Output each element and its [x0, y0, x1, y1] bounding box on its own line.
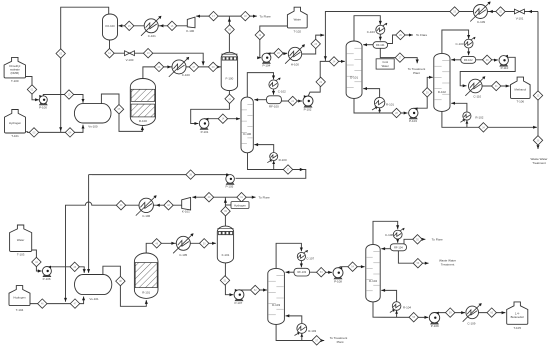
svg-text:T-100: T-100	[11, 79, 19, 83]
svg-text:Hydrogen: Hydrogen	[234, 203, 246, 207]
stream diamond Sk101b	[237, 193, 246, 202]
svg-text:Hydrogen: Hydrogen	[9, 121, 22, 125]
wire: P-102 discharge to D-101 feed junction	[308, 61, 325, 96]
wire: recycle gas to K-100	[196, 15, 229, 18]
reflux drum RF-101	[373, 42, 388, 49]
horizontal vessel Vs-100	[74, 104, 111, 129]
wire: D-100 bottoms to P-105	[236, 153, 306, 179]
stream diamond Sd101b	[392, 108, 401, 117]
stream diamond Streat101	[395, 53, 404, 62]
svg-text:P-107: P-107	[234, 301, 242, 305]
storage tank T-106	[511, 77, 531, 103]
wire: P-104 discharge to H-100	[266, 52, 287, 55]
svg-text:Plant: Plant	[337, 340, 344, 344]
svg-text:P-100: P-100	[39, 106, 47, 110]
svg-text:R-100: R-100	[139, 119, 147, 123]
wire: Vs-100 overhead to R-100	[101, 94, 144, 131]
wire: R-101 outlet to F-101 feed	[146, 242, 216, 253]
wire: C-109 to product tank T-105	[479, 311, 506, 314]
column D-100	[241, 97, 253, 153]
wire: purge to flare (train 2)	[225, 196, 255, 199]
wire: P-107 discharge to D-103 feed	[239, 288, 267, 291]
wire: purge to flare	[229, 15, 256, 18]
svg-text:RF-101: RF-101	[376, 43, 385, 47]
stream diamond Sd102f	[423, 88, 432, 97]
svg-text:R-102: R-102	[475, 116, 483, 120]
wire: RF-101 bottoms to treatment	[380, 48, 419, 63]
stream diamond Sww104	[413, 259, 422, 268]
wire: C-107 to RF-103	[300, 261, 303, 268]
stream diamond S5	[114, 105, 123, 114]
heat exchanger C-106	[136, 195, 157, 218]
reboiler R-101 (D-101 reboiler)	[372, 97, 394, 111]
wire: R-104 reboiler riser	[396, 310, 398, 317]
heat exchanger C-109 (2)	[463, 303, 482, 326]
flash drum F-100	[221, 52, 237, 90]
stream diamond Svs101	[70, 299, 79, 308]
wire: R-102 vapor return to D-102	[451, 102, 467, 112]
column D-101	[346, 41, 362, 98]
stream diamond Svert1	[533, 91, 542, 100]
hydrogen makeup stream box	[231, 202, 249, 209]
svg-text:C-100: C-100	[182, 73, 190, 77]
pump P-102	[303, 95, 313, 111]
svg-text:Methanol: Methanol	[515, 88, 527, 92]
wire: D-102 bottoms to recycle junction	[442, 111, 537, 128]
stream diamond Srf0	[288, 96, 297, 105]
svg-text:C-109: C-109	[477, 20, 485, 24]
wire: RF-102 distillate to P-110	[476, 59, 498, 62]
stream diamond Sh100b	[311, 39, 320, 48]
wire: recycle gas to K-101	[192, 196, 225, 199]
wire: RF-101 reflux to D-101	[363, 43, 373, 46]
reactor R-101	[134, 253, 158, 298]
svg-text:Water: Water	[17, 238, 24, 242]
stream diamond Sd100b	[283, 165, 292, 174]
wire: D-101 overhead to C-103	[354, 16, 382, 41]
wire: F-100 bottoms to P-101	[191, 91, 230, 125]
wire: RF-103 distillate to P-108	[310, 271, 333, 274]
stream diamond Sc106b	[116, 201, 125, 210]
stream diamond Svert2	[533, 136, 542, 145]
wire: RF-100 distillate to P-102	[281, 100, 302, 103]
wire: T-104 hydrogen feed line	[30, 297, 85, 304]
valve V-101	[514, 9, 524, 21]
reboiler R-102 (D-102 reboiler)	[460, 112, 483, 124]
svg-text:(DMM): (DMM)	[11, 71, 20, 75]
cooler C-104	[455, 37, 475, 48]
svg-text:D-103: D-103	[272, 303, 280, 307]
wire: KO-100 overhead recycle to hydrogen line	[59, 7, 108, 132]
svg-text:Butanediol: Butanediol	[511, 315, 525, 319]
svg-text:C-110: C-110	[473, 94, 481, 98]
wire: RF-104 reflux to D-104	[381, 247, 390, 250]
wire: T-103 water to P-106	[32, 250, 42, 273]
svg-text:V-101: V-101	[516, 17, 524, 21]
pump P-110	[499, 55, 509, 70]
svg-text:P-105: P-105	[225, 185, 233, 189]
svg-text:C-106: C-106	[142, 214, 150, 218]
wire: recycle header from V-101	[324, 10, 538, 62]
storage tank T-105	[507, 302, 528, 330]
reflux drum RF-104	[390, 244, 406, 251]
wire: R-103 vapor return to D-103	[286, 314, 302, 323]
wire: R-101 reboiler riser	[379, 108, 381, 113]
svg-text:C-102: C-102	[278, 89, 286, 93]
stream diamond Svs101o	[116, 276, 125, 285]
storage tank T-101	[5, 110, 26, 139]
stream diamond Sflare104	[413, 235, 422, 244]
stream diamond Sd101	[329, 57, 338, 66]
pump P-106	[42, 266, 51, 281]
stream diamond Sc2	[167, 21, 176, 30]
pump P-101	[199, 118, 209, 134]
wire: RF-101 vapor to flare	[388, 34, 413, 44]
heat exchanger H-100	[285, 44, 305, 66]
svg-text:P-102: P-102	[304, 107, 312, 111]
heat exchanger C-110	[465, 76, 485, 98]
stream diamond Sc106a	[164, 201, 173, 210]
stream diamond S4	[65, 128, 74, 137]
wire: C-110 to methanol tank T-106	[482, 85, 509, 88]
wire: D-101 bottoms to P-103	[354, 98, 408, 114]
svg-text:Water: Water	[294, 18, 301, 22]
heat exchanger C-101	[141, 16, 161, 38]
wire: D-104 bottoms to P-109	[373, 302, 428, 319]
reflux drum RF-100	[267, 96, 282, 109]
reboiler R-104 (D-104 reboiler)	[390, 302, 411, 314]
wire: R-104 vapor return to D-104	[381, 289, 396, 302]
wire: right edge recycle riser	[537, 12, 540, 150]
svg-text:Hydrogen: Hydrogen	[13, 296, 26, 300]
flash drum F-101	[217, 226, 233, 263]
wire: P-101 discharge to D-100 feed	[204, 117, 240, 120]
stream diamond S18	[241, 11, 250, 20]
pump P-100	[39, 95, 47, 110]
wire: C-104 to RF-102	[467, 48, 470, 55]
wire: D-100 overhead to C-102	[247, 73, 275, 98]
horizontal vessel Vs-101	[75, 275, 112, 301]
stream diamond S14	[218, 114, 227, 123]
cooler C-108	[385, 228, 404, 239]
stream diamond St102	[255, 30, 264, 39]
svg-text:C-108: C-108	[385, 233, 393, 237]
wire: P-105 product to Vs-101 (with crossover hop)	[87, 173, 230, 273]
svg-text:P-106: P-106	[43, 277, 51, 281]
stream diamond S10	[64, 90, 73, 99]
wire: P-109 discharge to C-109	[435, 311, 466, 314]
stream diamond Sc109b	[487, 308, 496, 317]
compressor K-100	[186, 17, 195, 33]
stream diamond Sp105	[186, 170, 195, 179]
wire: R-103 reboiler riser	[301, 334, 303, 341]
svg-text:D-101: D-101	[350, 76, 358, 80]
stream diamond S17	[209, 11, 218, 20]
svg-text:T-103: T-103	[17, 253, 25, 257]
stream diamond S11	[225, 94, 234, 103]
compressor K-101	[182, 197, 191, 213]
pump P-107	[234, 289, 244, 305]
svg-text:C-107: C-107	[306, 256, 314, 260]
stream diamond Sr101a	[152, 239, 161, 248]
wire: T-101 hydrogen feed line	[25, 125, 84, 133]
svg-text:C-101: C-101	[148, 34, 156, 38]
stream diamond Sk101a	[204, 193, 213, 202]
svg-text:P-101: P-101	[201, 130, 209, 134]
heat exchanger C-100	[169, 57, 190, 77]
svg-text:R-100: R-100	[279, 158, 287, 162]
wire: C-108 to RF-104	[396, 239, 399, 243]
wire: H-100 outlet to D-101 feed line	[302, 34, 325, 54]
svg-text:R-103: R-103	[308, 329, 316, 333]
svg-text:T-106: T-106	[517, 99, 525, 103]
stream diamond Sd102b	[479, 123, 488, 132]
wire: RF-103 reflux to D-103	[286, 271, 295, 274]
wire: T-100 outlet to P-100	[26, 77, 39, 102]
wire: RF-102 reflux to D-102	[451, 58, 461, 61]
pump P-105	[225, 174, 234, 189]
wire: F-101 bottoms to P-107	[225, 263, 233, 296]
wire: hydrogen makeup box connector	[225, 204, 231, 206]
svg-text:T-102: T-102	[294, 29, 302, 33]
stream diamond S6	[154, 62, 163, 71]
svg-text:R-104: R-104	[403, 305, 411, 309]
stream diamond Sc110	[492, 81, 501, 90]
pump P-109	[429, 312, 439, 329]
valve V-100	[125, 51, 135, 62]
svg-text:P-110: P-110	[501, 66, 509, 70]
wire: RF-100 reflux to D-100	[254, 98, 266, 101]
stream diamond Srf103	[317, 268, 326, 277]
stream diamond Sv1	[105, 49, 114, 58]
svg-text:Vs-100: Vs-100	[88, 124, 98, 128]
svg-text:H-100: H-100	[291, 63, 299, 67]
wire: K-101 discharge through C-106 and recycle downcomer (hop over product line)	[64, 202, 182, 302]
svg-text:RF-103: RF-103	[297, 270, 306, 274]
svg-text:Vs-101: Vs-101	[89, 297, 99, 301]
wire: T-102 water to P-104	[257, 26, 287, 59]
svg-text:T-104: T-104	[16, 308, 24, 312]
storage tank T-100	[4, 57, 25, 83]
stream diamond Shdr2	[496, 7, 505, 16]
reflux drum RF-102	[461, 56, 476, 63]
cooler C-102	[269, 78, 286, 94]
stream diamond Sh100	[274, 49, 283, 58]
wire: C-103 to RF-101	[379, 35, 382, 41]
wire: P-106 discharge to Vs-101 top	[47, 267, 86, 273]
pump P-104	[262, 52, 271, 67]
reboiler R-100 (D-100 reboiler)	[267, 153, 287, 165]
wire: F-101 overhead riser	[224, 197, 227, 226]
wire: P-103 discharge to D-102 feed	[413, 76, 433, 109]
wire: R-100 reboiler riser (D-100)	[273, 160, 275, 169]
stream diamond Sc1	[125, 21, 134, 30]
svg-text:RF-102: RF-102	[464, 58, 473, 62]
svg-text:K-101: K-101	[182, 210, 190, 214]
svg-text:C-105: C-105	[179, 253, 187, 257]
wire: KO-100 bottoms V-100 bypass	[110, 40, 205, 65]
svg-text:RF-100: RF-100	[269, 105, 279, 109]
svg-text:K-100: K-100	[186, 29, 194, 33]
stream diamond Sp102	[316, 77, 325, 86]
stream diamond S9	[208, 62, 217, 71]
svg-text:To Flare: To Flare	[260, 14, 271, 18]
svg-text:C-103: C-103	[367, 30, 375, 34]
stream diamond Sv2	[143, 49, 152, 58]
column D-104	[366, 244, 380, 302]
stream diamond Sp109	[446, 308, 455, 317]
wire: F-100 overhead riser	[228, 16, 231, 52]
stream diamond St104	[38, 299, 47, 308]
wire: K-100 discharge through C-101 to KO-100	[119, 24, 188, 27]
stream diamond Sf101t	[221, 207, 230, 216]
stream diamond S1	[27, 85, 36, 94]
svg-text:F-100: F-100	[226, 77, 234, 81]
svg-text:Plant: Plant	[413, 71, 420, 75]
heat exchanger C-105	[173, 233, 193, 256]
stream diamond S2	[56, 49, 65, 58]
wire: Vs-101 overhead to R-101	[103, 266, 148, 306]
svg-text:KO-100: KO-100	[105, 24, 115, 28]
stream diamond Sd104b	[409, 313, 418, 322]
storage tank T-103	[10, 225, 32, 257]
svg-text:T-105: T-105	[513, 326, 521, 330]
svg-text:To Flare: To Flare	[259, 195, 270, 199]
stream diamond S8	[225, 25, 234, 34]
svg-text:Cool: Cool	[382, 60, 388, 64]
storage tank T-102	[287, 7, 307, 33]
svg-text:To Flare: To Flare	[416, 33, 427, 37]
heat exchanger C-109	[470, 2, 490, 25]
wire: D-103 overhead to C-107	[276, 243, 303, 268]
wire: RF-104 distillate to waste water	[398, 251, 428, 265]
wire: C-102 outlet to RF-100	[272, 90, 275, 95]
wire: D-103 bottoms to treatment	[276, 324, 324, 342]
storage tank T-104	[9, 286, 30, 312]
reflux drum RF-103	[294, 268, 310, 276]
wire: P-108 discharge to D-104 feed	[338, 265, 365, 268]
wire: P-100 discharge to Vs-100 top	[43, 95, 84, 103]
wire: P-110 discharge to C-110	[460, 57, 515, 87]
knock-out drum KO-100	[103, 14, 118, 40]
wire: R-100 outlet to F-100 feed	[143, 65, 221, 78]
pump P-103	[409, 107, 418, 123]
wire: D-102 overhead to C-104	[442, 30, 470, 53]
wire: D-104 overhead to C-108	[373, 221, 399, 244]
svg-text:C-104: C-104	[455, 42, 463, 46]
wire: RF-104 vapor to flare	[404, 238, 425, 244]
svg-text:P-109: P-109	[431, 324, 439, 328]
stream diamond Sf101b	[220, 276, 229, 285]
svg-text:P-104: P-104	[262, 64, 270, 68]
svg-text:Treatment: Treatment	[441, 263, 455, 267]
stream diamond S7	[189, 62, 198, 71]
wire: D-101 feed	[325, 60, 344, 63]
stream diamond Sp107	[251, 285, 260, 294]
wire: R-102 reboiler riser	[466, 120, 468, 127]
cooler C-107	[297, 250, 314, 260]
svg-text:C-109: C-109	[467, 322, 475, 326]
stream diamond Shdr1	[450, 7, 459, 16]
stream diamond Sp108	[348, 262, 357, 271]
cooler C-103	[367, 23, 387, 34]
svg-text:T-101: T-101	[11, 134, 19, 138]
svg-text:D-102: D-102	[438, 90, 446, 94]
svg-text:V-100: V-100	[126, 58, 134, 62]
stream diamond S3	[29, 128, 38, 137]
stream diamond Srf102	[482, 55, 491, 64]
svg-text:D-104: D-104	[369, 279, 377, 283]
wire: R-101 vapor return to D-101	[363, 87, 379, 97]
svg-text:P-108: P-108	[334, 280, 342, 284]
svg-text:P-103: P-103	[409, 119, 417, 123]
stream diamond Sflare101	[396, 30, 405, 39]
svg-text:Treatment: Treatment	[532, 161, 546, 165]
reactor R-100	[130, 79, 155, 126]
stream diamond Sd103b	[312, 336, 321, 345]
wire: R-100 vapor return to D-100	[254, 143, 273, 153]
svg-text:F-101: F-101	[222, 253, 230, 257]
cool water utility box	[376, 59, 394, 69]
pump P-108	[333, 267, 343, 284]
svg-text:D-100: D-100	[243, 132, 251, 136]
stream diamond Sr101b	[200, 239, 209, 248]
svg-text:RF-104: RF-104	[394, 245, 403, 249]
svg-text:To Flare: To Flare	[432, 238, 443, 242]
svg-text:R-101: R-101	[142, 291, 150, 295]
stream diamond St103	[32, 257, 41, 266]
stream diamond Sp106	[70, 262, 79, 271]
reboiler R-103 (D-103 reboiler)	[295, 324, 317, 337]
column D-103	[268, 268, 285, 324]
column D-102	[434, 53, 450, 111]
svg-text:R-101: R-101	[386, 102, 394, 106]
svg-text:Water: Water	[382, 64, 389, 68]
